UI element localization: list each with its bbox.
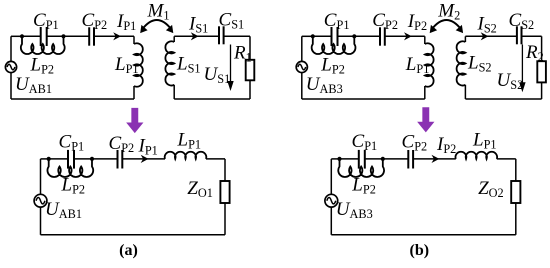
wire: [224, 203, 226, 235]
svg-text:(a): (a): [119, 242, 138, 259]
capacitor CP2: [408, 150, 413, 169]
wire: [11, 35, 22, 37]
AC source UAB3: [325, 194, 338, 207]
wire: [340, 158, 359, 160]
current arrow IP1: [113, 32, 121, 40]
junction node: [61, 34, 65, 38]
wire: [224, 159, 226, 181]
wire: [465, 35, 517, 37]
resistor R2: [537, 61, 546, 82]
capacitor CP1: [68, 150, 74, 169]
wire: [330, 207, 332, 235]
wire: [301, 73, 303, 99]
impedance ZO2: [511, 181, 520, 203]
AC source UAB3: [296, 61, 307, 72]
current arrow IP1: [141, 155, 149, 163]
wire: [10, 73, 12, 99]
inductor LP1: [425, 43, 434, 86]
wire: [10, 36, 12, 61]
mutual coupling M1: [140, 20, 173, 33]
wire: [522, 35, 542, 37]
wire: [224, 35, 250, 37]
current arrow IP2: [432, 155, 440, 163]
wire: [331, 158, 339, 160]
wire: [64, 35, 90, 37]
inductor LP1: [165, 152, 207, 159]
wire: [301, 36, 303, 61]
capacitor CP1: [41, 27, 47, 46]
junction node: [90, 157, 94, 161]
wire: [74, 158, 92, 160]
junction node: [337, 157, 341, 161]
wire: [365, 158, 383, 160]
wire: [92, 158, 118, 160]
wire: [302, 98, 425, 100]
inductor LP2: [312, 36, 356, 54]
wire: [464, 36, 466, 42]
wire: [354, 35, 380, 37]
wire: [133, 36, 135, 44]
wire: [41, 158, 49, 160]
junction node: [352, 34, 356, 38]
wire: [541, 36, 543, 61]
current arrow IS1: [191, 32, 199, 40]
AC source UAB1: [34, 194, 47, 207]
wire: [331, 234, 516, 236]
inductor LS2: [457, 41, 466, 85]
wire: [206, 158, 225, 160]
wire: [385, 35, 425, 37]
current arrow IS2: [481, 32, 489, 40]
wire: [302, 35, 313, 37]
capacitor CS2: [517, 26, 522, 44]
wire: [249, 80, 251, 99]
wire: [515, 159, 517, 181]
wire: [424, 86, 426, 99]
AC source UAB1: [5, 61, 16, 72]
wire: [465, 98, 541, 100]
wire: [11, 98, 134, 100]
equivalence arrow (purple): [126, 108, 143, 133]
wire: [94, 35, 134, 37]
wire: [464, 85, 466, 99]
wire: [515, 203, 517, 235]
wire: [249, 36, 251, 60]
voltage arrow US2: [519, 45, 525, 93]
capacitor CP1: [332, 27, 338, 46]
wire: [41, 234, 226, 236]
junction node: [47, 157, 51, 161]
inductor LP1: [456, 152, 498, 159]
current arrow IP2: [404, 32, 412, 40]
capacitor CP2: [89, 27, 94, 45]
wire: [40, 207, 42, 235]
inductor LS1: [165, 41, 174, 85]
wire: [173, 36, 175, 42]
capacitor CP1: [359, 150, 365, 169]
capacitor CP2: [380, 27, 385, 45]
svg-text:(b): (b): [410, 242, 430, 259]
inductor LP1: [134, 43, 143, 86]
inductor LP2: [338, 159, 384, 177]
inductor LP2: [47, 159, 93, 177]
junction node: [381, 157, 385, 161]
wire: [541, 82, 543, 99]
impedance ZO1: [220, 181, 229, 203]
wire: [40, 159, 42, 194]
wire: [173, 85, 175, 99]
wire: [497, 158, 516, 160]
wire: [122, 158, 165, 160]
voltage arrow US1: [227, 45, 233, 92]
wire: [174, 98, 250, 100]
wire: [22, 35, 41, 37]
wire: [330, 159, 332, 194]
wire: [383, 158, 409, 160]
wire: [313, 35, 332, 37]
inductor LP2: [21, 36, 65, 54]
junction node: [20, 34, 24, 38]
wire: [47, 35, 64, 37]
wire: [413, 158, 456, 160]
wire: [424, 36, 426, 44]
junction node: [311, 34, 315, 38]
capacitor CP2: [118, 150, 123, 169]
wire: [338, 35, 355, 37]
equivalence arrow (purple): [417, 107, 434, 132]
wire: [174, 35, 219, 37]
resistor R1: [246, 60, 255, 81]
wire: [133, 86, 135, 99]
capacitor CS1: [219, 26, 224, 44]
wire: [49, 158, 68, 160]
mutual coupling M2: [430, 20, 463, 33]
